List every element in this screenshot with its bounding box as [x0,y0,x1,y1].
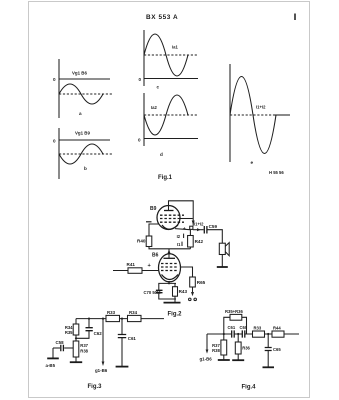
ground (cathode) [174,299,176,302]
plot e zero line solid part [274,114,290,116]
capacitor C70 [156,290,163,292]
resistor R34 top [128,315,142,321]
svg-text:C61: C61 [128,336,137,341]
svg-text:R41: R41 [127,262,136,267]
current arrow right [197,228,201,231]
grid input wire [113,270,159,272]
svg-text:C59: C59 [209,224,218,229]
tube B6 envelope [159,254,181,282]
plot c bias dashed line [144,54,198,56]
svg-text:R38: R38 [80,348,88,353]
resistor R37/R38 (fig4) [223,334,225,340]
svg-text:C62: C62 [94,331,103,336]
svg-text:g1-B6: g1-B6 [95,368,108,373]
tube B9 anode plate [164,210,174,212]
tube B9 grid g2 dashes [160,218,178,220]
capacitor C60 [242,330,245,337]
ground (R38) [70,361,82,363]
node dot left [223,333,225,335]
plot e bias dashed line [230,114,276,116]
plot b zero line [59,139,110,141]
svg-text:R35+R36: R35+R36 [225,309,243,314]
resistor R42 [189,230,191,236]
resistor R41 [128,268,142,274]
speaker LS [219,243,225,254]
wire R35 to node [75,335,77,341]
sheet number I [294,14,296,21]
tube B9 cathode [162,225,178,229]
capacitor C59 [204,226,207,234]
resistor R43 [174,283,176,299]
svg-text:R36: R36 [242,345,250,350]
wire R38 to ground [75,357,77,362]
wire R38 to ground (fig4) [223,355,225,359]
plot b axis [58,128,60,179]
svg-text:R37: R37 [80,343,88,348]
svg-text:Ia1: Ia1 [172,45,178,50]
svg-text:d: d [160,152,163,157]
resistor R37/R38 [73,341,79,357]
capacitor C61 [118,335,126,338]
plot a bias dashed line [59,93,113,95]
plot c sine curve [144,34,188,76]
node junction dot [75,337,77,339]
tube B6 grid dashes [161,263,179,265]
plot a sine curve [59,84,103,104]
svg-text:e: e [251,160,254,165]
svg-text:Fig.2: Fig.2 [168,312,183,318]
svg-text:I1+I2: I1+I2 [256,105,266,110]
svg-text:R65: R65 [197,280,206,285]
svg-text:a: a [79,111,82,116]
svg-text:C60: C60 [240,325,248,330]
input wire to C58 [53,347,60,349]
speaker ground wire [221,255,223,267]
svg-text:R33: R33 [254,326,262,331]
tube B6 anode lead wire [168,249,170,258]
wire anode rail B6 [149,247,190,249]
tube B9 anode lead wire [169,201,194,226]
node dot C61 tap [121,318,123,320]
capacitor C61 branch wire [121,319,123,367]
svg-text:Ia2: Ia2 [151,105,157,110]
wire R36 to ground [237,354,239,360]
svg-text:R42: R42 [195,239,204,244]
main line wire [207,333,299,335]
capacitor C62 [86,328,93,331]
svg-text:g1-B6: g1-B6 [200,357,213,362]
svg-text:R33: R33 [107,310,116,315]
capacitor C62 branch wire [76,319,89,339]
node cathode junction [168,282,170,284]
current arrow down on anode wire [192,221,195,226]
svg-text:R43: R43 [179,289,188,294]
svg-text:R35: R35 [65,330,73,335]
resistor R40 [149,224,159,236]
svg-text:R44: R44 [273,326,281,331]
R65 output wire with arrow [192,287,194,293]
svg-text:C61: C61 [228,325,236,330]
plot c axis [143,30,145,86]
plot e axis [229,64,231,162]
svg-text:0: 0 [53,77,56,82]
svg-text:Vg1 B6: Vg1 B6 [72,71,87,76]
arrow wire to g1-B6 [102,319,104,362]
node dot g1 tap [102,318,104,320]
top rail wire [76,318,164,320]
wire C58 to divider [64,347,73,349]
capacitor C58 [61,345,64,351]
node dot right [267,333,269,335]
svg-text:C58: C58 [56,340,65,345]
node dot on rail at C62 [88,318,90,320]
svg-text:H 55 56: H 55 56 [269,170,284,175]
terminal drop wire [52,348,54,358]
output wire node a to C59 [193,229,204,231]
svg-text:c: c [157,85,160,90]
ground (a-B5 terminal) [47,357,59,359]
ground (C61) [116,366,129,368]
tube B9 envelope [157,206,180,230]
plot a zero line [59,78,110,80]
bypass arm wires [224,317,247,334]
svg-text:Fig.3: Fig.3 [88,384,103,390]
terminal wire g1-B6 [206,334,208,350]
svg-text:B6: B6 [152,253,159,259]
plot a axis [58,59,60,118]
resistor R44 [272,331,284,337]
plot d zero axis [144,138,198,140]
svg-text:0: 0 [138,138,141,143]
tube B6 cathode [162,275,179,280]
tube B9 grid g1 dashes [160,221,184,223]
svg-text:+: + [183,226,186,231]
svg-text:R40: R40 [137,239,146,244]
tube B9 grid g3 dashes [160,214,184,216]
R42 bottom stem [189,247,191,249]
svg-text:BX 553 A: BX 553 A [146,14,178,21]
svg-text:b: b [84,166,87,171]
tube B9 cathode lead to node a [175,229,190,230]
plot d bias dashed line [144,114,198,116]
ground (R36) [232,359,244,361]
svg-text:Vg1 B9: Vg1 B9 [75,131,90,136]
resistor R34/R35 [73,324,79,335]
capacitor C65 branch wire [267,334,269,367]
plot d sine curve [144,95,188,135]
svg-text:0: 0 [53,139,56,144]
plot c zero axis [144,78,198,80]
resistor R35+R36 [230,314,242,320]
minus bias mark [146,221,152,223]
capacitor C61 (fig4) [232,330,235,337]
capacitor C65 [265,348,272,351]
ground (speaker) [217,266,228,268]
cathode stem [168,281,170,283]
wire C59 to speaker [207,230,222,244]
plot d axis [143,93,145,146]
resistor R65 [190,277,196,287]
plot e sine curve [230,77,276,154]
svg-text:R34: R34 [129,310,138,315]
tube B6 anode plate [164,257,176,259]
resistor R33 (fig4) [253,331,265,337]
left leg wire [75,319,77,324]
output terminals o o [189,298,192,301]
tube B6 screen wire to R65 [180,267,192,277]
ground (C65) [263,366,275,368]
svg-text:C70 50M: C70 50M [144,290,162,295]
svg-text:a-B5: a-B5 [46,363,56,368]
svg-text:R38: R38 [212,348,220,353]
svg-text:C65: C65 [273,347,281,352]
resistor R36 [237,334,239,342]
node a square [190,226,193,229]
svg-text:I1+I2: I1+I2 [194,222,204,227]
svg-text:0: 0 [139,77,142,82]
node dot mid [237,333,239,335]
plot b sine curve [59,144,103,164]
ground (R38 fig4) [218,359,230,361]
svg-text:B9: B9 [150,206,157,212]
plot b bias dashed line [59,153,113,155]
svg-text:Fig.4: Fig.4 [242,385,257,391]
svg-text:Fig.1: Fig.1 [158,175,173,181]
tube B9 g2 connection wire [178,218,193,220]
cathode RC loop wires [159,283,176,299]
resistor R33 [106,315,120,321]
current arrow up on B6 anode lead [168,249,171,253]
